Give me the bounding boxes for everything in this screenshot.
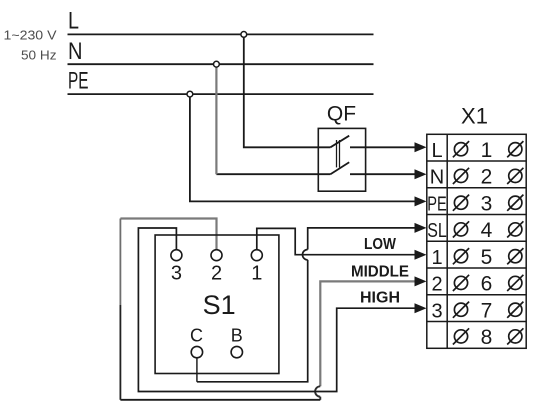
svg-text:7: 7 <box>481 299 493 322</box>
svg-text:5: 5 <box>481 246 493 269</box>
svg-text:SL: SL <box>427 220 447 242</box>
svg-text:L: L <box>431 140 442 162</box>
svg-text:C: C <box>190 326 203 346</box>
svg-text:2: 2 <box>211 263 222 285</box>
svg-text:3: 3 <box>431 300 442 322</box>
svg-text:1~230 V: 1~230 V <box>4 28 57 43</box>
svg-text:2: 2 <box>481 166 493 189</box>
svg-text:B: B <box>231 326 243 346</box>
svg-text:PE: PE <box>68 68 89 95</box>
svg-text:3: 3 <box>481 192 493 215</box>
svg-text:1: 1 <box>251 263 262 285</box>
svg-text:N: N <box>430 167 444 189</box>
svg-text:QF: QF <box>327 103 356 126</box>
svg-text:3: 3 <box>171 263 182 285</box>
svg-text:MIDDLE: MIDDLE <box>351 264 409 281</box>
svg-text:X1: X1 <box>461 104 488 129</box>
svg-text:LOW: LOW <box>364 236 396 253</box>
svg-text:1: 1 <box>431 247 442 269</box>
svg-text:8: 8 <box>481 326 493 349</box>
svg-text:L: L <box>68 7 79 34</box>
svg-text:N: N <box>68 38 83 65</box>
svg-text:4: 4 <box>481 219 493 242</box>
svg-text:S1: S1 <box>203 290 236 320</box>
svg-text:2: 2 <box>431 274 442 296</box>
svg-text:PE: PE <box>427 193 447 215</box>
svg-text:50 Hz: 50 Hz <box>21 48 57 63</box>
svg-text:HIGH: HIGH <box>360 290 400 307</box>
svg-text:6: 6 <box>481 273 493 296</box>
svg-text:1: 1 <box>481 139 493 162</box>
